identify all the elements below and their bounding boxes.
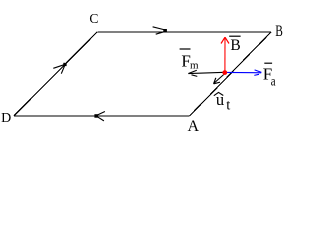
label B: magnetic field B with overline	[229, 36, 241, 54]
svg-text:B: B	[275, 23, 283, 40]
svg-text:D: D	[1, 111, 11, 126]
vertex label C	[89, 11, 98, 26]
svg-text:m: m	[190, 60, 199, 72]
vector Fa: blue arrow pointing right	[225, 70, 262, 76]
vector u_t: black unit-tangent arrow pointing down-left along AB	[214, 75, 224, 84]
vertex label B	[275, 23, 283, 40]
vertex label A	[188, 118, 200, 135]
label Fm: F with overline and subscript m	[180, 49, 199, 72]
wire: edge A to D (bottom side)	[14, 115, 190, 117]
wire: edge C to B (top side)	[97, 31, 271, 33]
arrow on top edge C to B pointing right	[153, 27, 167, 34]
svg-text:a: a	[271, 75, 276, 90]
svg-text:t: t	[226, 98, 230, 114]
arrow on bottom edge A to D pointing left	[94, 112, 105, 121]
svg-text:C: C	[89, 11, 98, 26]
svg-text:A: A	[188, 118, 200, 135]
vector Fm: black arrow pointing left	[188, 70, 225, 76]
arrow on left edge D to C pointing up-right	[53, 63, 66, 74]
svg-text:B: B	[230, 37, 240, 54]
vector B: red arrow pointing up	[221, 37, 229, 72]
label u_t: unit vector u with hat and subscript t	[214, 90, 231, 114]
node: junction red dot on edge AB	[222, 70, 227, 75]
wire: edge D to C (left side of parallelogram)	[14, 32, 97, 116]
wire: edge B to A (right side diagonal)	[190, 32, 272, 116]
svg-text:u: u	[216, 90, 224, 109]
label Fa: F with overline and subscript a	[263, 63, 276, 89]
vertex label D	[1, 111, 11, 126]
